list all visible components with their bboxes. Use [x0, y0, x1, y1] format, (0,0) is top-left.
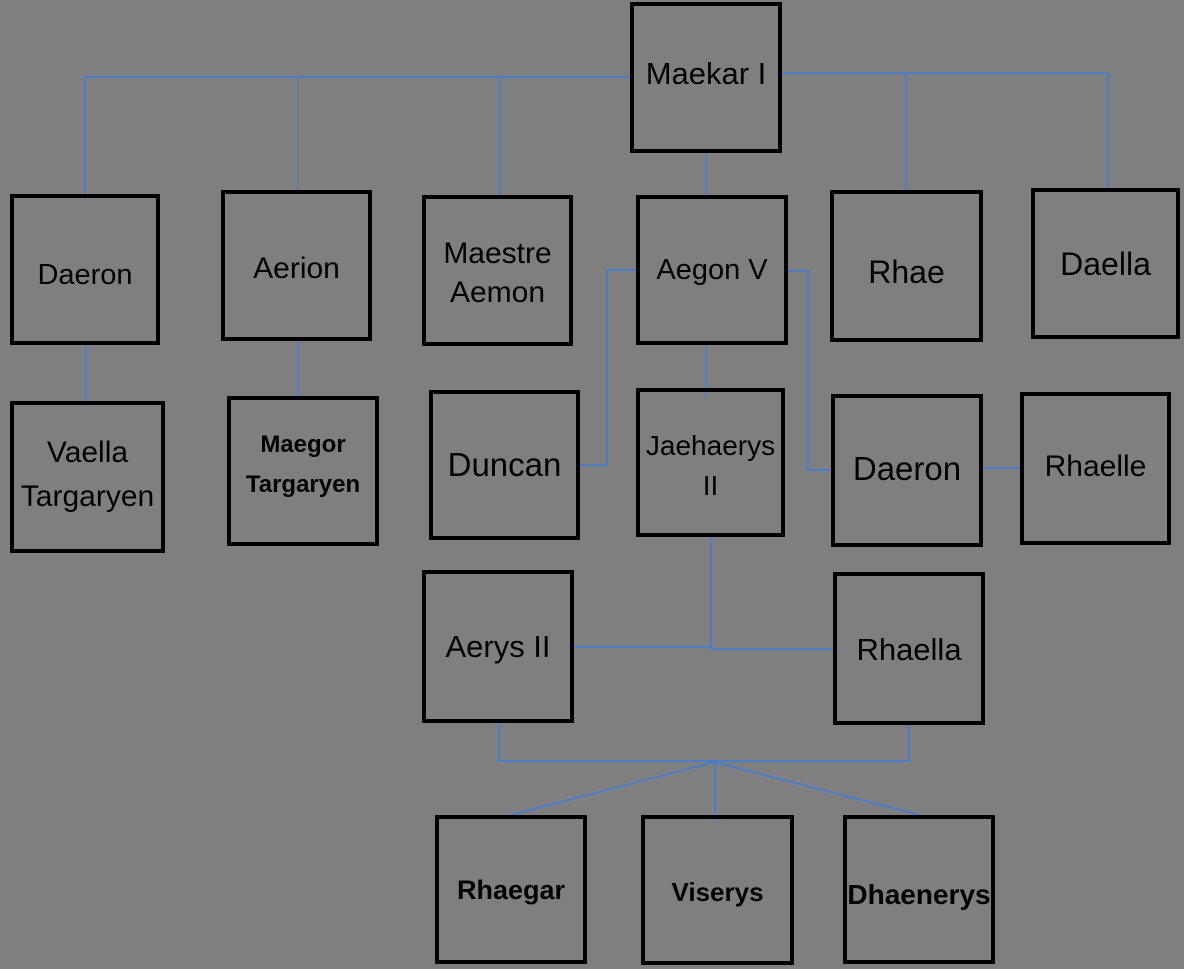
node Aegon V	[636, 195, 788, 345]
wire: drop to Aerion	[297, 76, 299, 191]
wire: Aegon V left elbow vertical	[606, 269, 608, 466]
node Rhaelle	[1020, 392, 1171, 545]
wire: Aegon V right elbow vertical	[807, 270, 809, 471]
node Rhaella	[833, 572, 985, 725]
wire: marriage rail Aerys II to Rhaella	[574, 646, 711, 648]
node Aerys II	[422, 570, 574, 723]
node Aerion	[221, 190, 372, 341]
wire: Maekar I down to Aegon V	[705, 153, 707, 195]
node Maekar I	[630, 2, 782, 153]
node Rhae	[830, 190, 983, 342]
wire: elbow into Duncan right edge	[580, 464, 608, 466]
node Rhaegar	[435, 815, 587, 964]
wire: Jaehaerys II down to marriage rail	[710, 537, 712, 650]
wire: drop to Maestre Aemon	[499, 76, 501, 196]
node Dhaenerys	[843, 815, 995, 964]
wire: marriage rail right half	[711, 648, 834, 650]
wire: vertical from children rail into Viserys	[714, 760, 716, 822]
wire: children rail	[498, 760, 910, 762]
wire: Aegon V down to Jaehaerys II	[705, 345, 707, 397]
wire: top-left rail from Maekar I left edge	[84, 76, 630, 78]
node Daeron (row 3)	[831, 394, 983, 547]
node Daella	[1031, 188, 1180, 339]
node Maestre Aemon	[422, 195, 573, 346]
node Viserys	[641, 815, 794, 965]
node Duncan	[429, 390, 580, 540]
wire: Daeron (row 3) to Rhaelle	[983, 467, 1021, 469]
wire: Rhaella bottom drop	[908, 725, 910, 762]
wire: Aegon V right elbow horizontal	[788, 270, 809, 272]
wire: Aerys II bottom drop	[498, 723, 500, 762]
wire: drop to Daella	[1107, 72, 1109, 188]
wire: top-right rail from Maekar I right edge	[782, 72, 1108, 74]
node Jaehaerys II	[636, 388, 785, 537]
wire: Daeron down to Vaella Targaryen	[85, 345, 87, 401]
wire: Aerion down to Maegor Targaryen	[297, 341, 299, 398]
wire: drop to Daeron	[84, 76, 86, 195]
wire: elbow into Daeron (row 3) left edge	[807, 469, 831, 471]
node Vaella Targaryen	[10, 401, 165, 553]
node Maegor Targaryen	[227, 396, 379, 546]
wire: drop to Rhae	[905, 72, 907, 190]
node Daeron (row 2)	[10, 194, 160, 345]
wire: Aegon V left elbow horizontal	[606, 269, 636, 271]
